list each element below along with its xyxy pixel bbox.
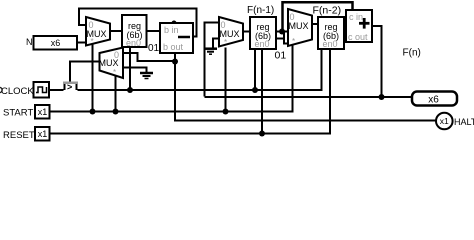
- svg-text:b in: b in: [164, 25, 179, 35]
- svg-text:en0: en0: [322, 39, 337, 49]
- svg-text:N: N: [26, 37, 33, 47]
- svg-text:RESET: RESET: [3, 130, 35, 141]
- svg-text:CLOCK: CLOCK: [1, 86, 34, 97]
- svg-text:en0: en0: [254, 39, 269, 49]
- svg-text:MUX: MUX: [289, 21, 309, 31]
- svg-text:c in: c in: [349, 12, 363, 22]
- svg-text:F(n-1): F(n-1): [247, 5, 274, 16]
- svg-text:START: START: [3, 108, 33, 119]
- svg-text:01: 01: [148, 43, 160, 54]
- svg-text:MUX: MUX: [87, 29, 107, 39]
- svg-text:en0: en0: [126, 38, 141, 48]
- svg-text:x6: x6: [428, 95, 439, 106]
- svg-text:>: >: [67, 82, 72, 92]
- svg-text:MUX: MUX: [220, 29, 240, 39]
- svg-text:F(n): F(n): [403, 48, 421, 59]
- svg-text:c out: c out: [348, 32, 368, 42]
- svg-text:x1: x1: [38, 107, 48, 117]
- svg-text:MUX: MUX: [99, 58, 119, 68]
- svg-text:b out: b out: [163, 42, 184, 52]
- svg-text:*: *: [292, 37, 295, 46]
- svg-text:*: *: [113, 68, 116, 77]
- svg-text:x1: x1: [38, 129, 48, 139]
- svg-text:HALT: HALT: [454, 117, 474, 127]
- svg-text:F(n-2): F(n-2): [313, 5, 342, 17]
- svg-text:*: *: [91, 37, 94, 46]
- svg-text:01: 01: [275, 50, 287, 62]
- svg-text:*: *: [224, 38, 227, 47]
- svg-text:x1: x1: [440, 116, 449, 126]
- svg-text:x6: x6: [51, 38, 61, 48]
